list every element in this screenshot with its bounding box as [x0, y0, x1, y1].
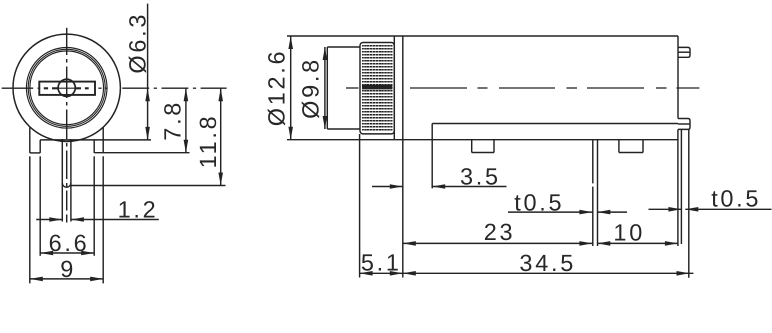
dimension line C (11.8) [220, 88, 222, 185]
base strip top line [432, 123, 678, 125]
svg-text:t0.5: t0.5 [514, 189, 564, 215]
bushing cylinder left face [326, 47, 328, 129]
knurl stripes [362, 44, 393, 132]
dimension line dia 9.8 [324, 47, 326, 129]
svg-text:Ø12.6: Ø12.6 [263, 49, 289, 127]
dimension t0.5 middle left part [508, 211, 592, 213]
base tab A bottom [472, 152, 494, 154]
dimension 9 line [30, 278, 103, 280]
body right edge [677, 36, 679, 119]
flange right edge / body front + extension down [402, 36, 404, 278]
dimension 5.1 line [360, 272, 403, 274]
bushing cylinder top [327, 46, 360, 48]
terminal tab top [678, 47, 690, 57]
thin line through center circle [58, 87, 75, 89]
svg-text:7.8: 7.8 [160, 100, 186, 141]
svg-text:34.5: 34.5 [519, 250, 576, 276]
extension line from body right edge [677, 129, 679, 246]
horizontal centerline [2, 87, 227, 89]
svg-text:Ø6.3: Ø6.3 [125, 12, 151, 74]
dimension 34.5 line [403, 272, 694, 274]
middle leg right line [597, 140, 599, 246]
svg-text:9: 9 [60, 256, 76, 282]
base tab A right [493, 140, 495, 153]
knurled ring outline [360, 43, 394, 134]
RIGHT-VIEW [263, 36, 771, 278]
inner ring 2 [28, 49, 105, 126]
slot line left [61, 139, 63, 222]
dimension t0.5 right right part [685, 208, 771, 210]
horizontal centerline right view [346, 87, 699, 89]
knurl-left extension line for 5.1 [359, 134, 361, 278]
middle leg left line extension [592, 187, 594, 246]
dimension t0.5 middle right part [597, 211, 627, 213]
slot line right [70, 139, 72, 222]
bottom outline line (flange + base bottom) [287, 139, 678, 141]
svg-text:Ø9.8: Ø9.8 [298, 57, 324, 119]
dimension 1.2 line right part [71, 219, 159, 221]
body right notch bottom + extension to dim B [94, 152, 189, 154]
inner ring 3 [30, 51, 104, 125]
base tab B right [642, 140, 644, 153]
base tab A left [471, 140, 473, 153]
svg-text:6.6: 6.6 [49, 230, 90, 256]
dimension 3.5 left arrow [372, 186, 403, 188]
bold dashes inside tip rectangle [44, 87, 89, 89]
body right outer edge [102, 128, 104, 153]
slot rounded bottom [62, 183, 71, 187]
right leg left line [680, 129, 682, 244]
outer circle (bushing OD, front view) [13, 34, 120, 141]
svg-text:1.2: 1.2 [118, 197, 159, 223]
body top line + extension to dim A [40, 139, 151, 141]
svg-text:11.8: 11.8 [195, 114, 221, 169]
dimension 23 line [403, 242, 593, 244]
svg-text:5.1: 5.1 [361, 249, 402, 275]
leg line inner-right [93, 156, 95, 256]
dimension t0.5 right left part [649, 208, 682, 210]
terminal tab top mid line [678, 51, 689, 53]
leg line outer-right [102, 156, 104, 283]
svg-text:23: 23 [484, 219, 516, 245]
slot bottom extension to dim C [71, 185, 226, 187]
tip contact rectangle [39, 82, 95, 95]
svg-text:3.5: 3.5 [460, 163, 501, 189]
top outline line (flange + body top) [287, 35, 678, 37]
LEFT-VIEW [2, 4, 227, 284]
dimension line A (dia 6.3) [147, 4, 149, 140]
leg line outer-left [29, 156, 31, 283]
svg-text:10: 10 [613, 219, 645, 245]
middle leg left line [592, 140, 594, 184]
body left outer edge [29, 128, 31, 153]
body right notch vertical [93, 140, 95, 153]
dimension line B (7.8) [185, 88, 187, 153]
dimension line dia 12.6 [290, 36, 292, 140]
body left notch bottom [30, 152, 40, 154]
center pin circle [58, 79, 75, 96]
right leg right line [688, 129, 690, 277]
flange left edge [393, 36, 395, 140]
bushing cylinder bottom [327, 128, 360, 130]
vertical centerline [66, 28, 68, 223]
base strip left edge + extension for 3.5 [431, 124, 433, 189]
base tab B left [618, 140, 620, 153]
dimension 1.2 line left part [36, 219, 62, 221]
dimension 6.6 line [40, 252, 94, 254]
dimension 10 line [597, 242, 678, 244]
inner ring 1 [26, 48, 107, 129]
dimension 3.5 line and right arrow [432, 186, 506, 188]
body left notch vertical [39, 140, 41, 153]
leg line inner-left [39, 156, 41, 256]
terminal tab lower [678, 119, 690, 130]
knurl thick centerline band [362, 85, 392, 89]
base tab B bottom [619, 152, 643, 154]
terminal tab lower mid line [678, 123, 689, 125]
svg-text:t0.5: t0.5 [711, 186, 761, 212]
